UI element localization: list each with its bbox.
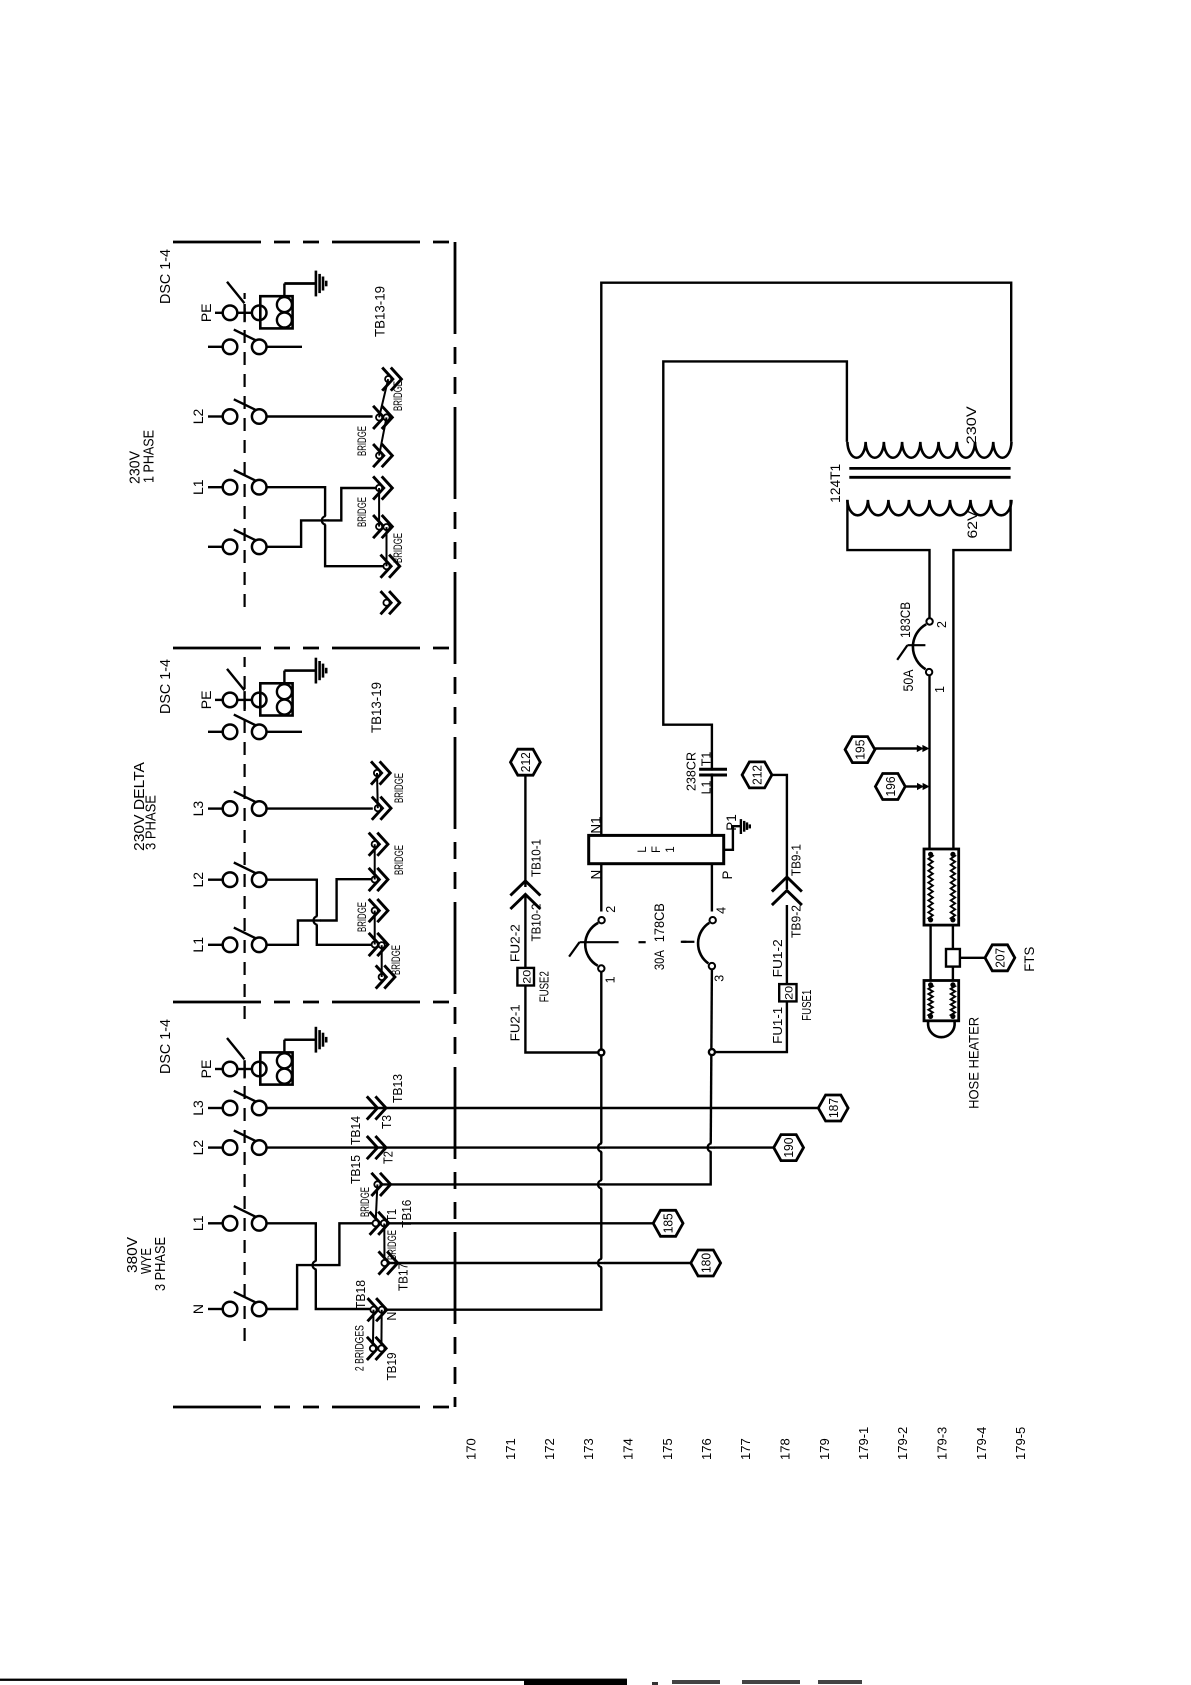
svg-text:2 BRIDGES: 2 BRIDGES xyxy=(353,1325,367,1371)
disconnect DSC spare pole (section 2) xyxy=(208,731,222,733)
heater element R1a xyxy=(928,854,932,920)
terminal chevron TB16 (section 2) xyxy=(369,868,380,891)
svg-text:BRIDGE: BRIDGE xyxy=(355,426,369,456)
svg-text:TB13-19: TB13-19 xyxy=(373,286,388,337)
wire N1 from LF1 box to transformer loop xyxy=(601,283,1011,836)
wire node212 to TB9 chevron xyxy=(772,775,787,889)
node 190 xyxy=(774,1135,804,1161)
wire P side of LF1 to 178CB contact 4 xyxy=(711,863,713,912)
svg-text:TB10-2: TB10-2 xyxy=(530,903,544,941)
svg-text:BRIDGE: BRIDGE xyxy=(391,381,405,411)
terminal chevron TB14 (section 1) xyxy=(373,406,384,429)
svg-text:DSC 1-4: DSC 1-4 xyxy=(157,659,174,714)
wire TB18 to N-bus xyxy=(385,1264,601,1310)
svg-text:1: 1 xyxy=(933,686,947,693)
svg-text:N: N xyxy=(190,1304,206,1314)
interlock dashed line (section 2) xyxy=(244,657,246,1019)
terminal chevron TB14 (section 2) xyxy=(372,797,383,820)
svg-text:FUSE1: FUSE1 xyxy=(800,990,814,1021)
svg-text:1: 1 xyxy=(603,976,617,983)
circuit breaker 178CB pole N (contacts 2-1) xyxy=(598,917,604,923)
bridge link 2 (section 2) xyxy=(374,844,376,879)
wire L2 jog to terminal (section 2) xyxy=(267,880,372,945)
svg-text:3: 3 xyxy=(713,975,727,982)
svg-text:FU2-1: FU2-1 xyxy=(508,1004,522,1041)
svg-text:20: 20 xyxy=(522,970,534,984)
bridge link 4 (section 1) xyxy=(386,527,388,566)
svg-text:DSC 1-4: DSC 1-4 xyxy=(157,1019,174,1074)
svg-text:180: 180 xyxy=(699,1253,713,1273)
wire secondary top end to 62V-A xyxy=(847,500,929,619)
section border (dashed) left of 380V wye section xyxy=(173,1406,455,1409)
bridge link 3 (section 2) xyxy=(374,911,376,945)
terminal chevron TB16 (section 1) xyxy=(373,476,384,499)
terminal chevron TB16 (section 3) xyxy=(370,1212,381,1235)
ground (LF1 P1) xyxy=(724,826,741,850)
bridge link 1 (section 2) xyxy=(376,773,379,808)
ground (section 3 PE) xyxy=(284,1038,316,1040)
svg-text:175: 175 xyxy=(660,1438,675,1460)
transformer 124T1 primary winding 230V xyxy=(847,442,1011,458)
node 195 xyxy=(845,737,875,763)
terminal chevron TB17 (section 2) xyxy=(369,899,380,922)
svg-text:179-1: 179-1 xyxy=(856,1427,871,1460)
svg-text:BRIDGE: BRIDGE xyxy=(355,902,369,932)
svg-text:179-2: 179-2 xyxy=(895,1427,910,1460)
hose heater element housing 2 xyxy=(924,981,959,1021)
svg-text:179-5: 179-5 xyxy=(1013,1427,1028,1460)
wire spare pole jog to TB16 terminal (section 1) xyxy=(267,488,376,547)
svg-text:DSC 1-4: DSC 1-4 xyxy=(157,249,174,304)
svg-text:FUSE2: FUSE2 xyxy=(538,971,552,1002)
svg-text:P: P xyxy=(720,870,735,879)
node 212 (FU1 source) xyxy=(742,762,772,788)
terminal chevron TB19 (section 2) xyxy=(376,965,387,988)
svg-text:TB15: TB15 xyxy=(349,1155,363,1184)
wire L1 jog to TB17 terminal (section 1) xyxy=(267,487,383,566)
circuit breaker 183CB (contacts 2-1) xyxy=(926,618,932,624)
bridge link 4 (section 2) xyxy=(381,945,383,977)
long dashed border under sections xyxy=(454,242,457,1407)
node 185 xyxy=(653,1210,683,1236)
wire crossover hop N-bus over TB17 xyxy=(598,1259,604,1267)
terminal chevron TB18 (section 2) xyxy=(369,933,380,956)
svg-text:TB18: TB18 xyxy=(354,1280,368,1309)
heater element R2a xyxy=(928,985,932,1017)
wire L2 to TB14 terminal (section 1) xyxy=(267,415,373,417)
svg-text:30A: 30A xyxy=(652,950,667,970)
svg-text:62V: 62V xyxy=(965,511,980,539)
terminal chevron TB17 (section 3) xyxy=(379,1251,390,1274)
svg-text:T1: T1 xyxy=(700,752,714,767)
svg-text:176: 176 xyxy=(699,1438,714,1460)
svg-text:TB17: TB17 xyxy=(397,1263,411,1291)
svg-text:2: 2 xyxy=(935,621,949,628)
svg-text:L2: L2 xyxy=(190,872,206,888)
svg-text:TB10-1: TB10-1 xyxy=(530,839,544,877)
svg-text:196: 196 xyxy=(884,776,898,796)
svg-text:3 PHASE: 3 PHASE xyxy=(143,795,160,850)
svg-text:PE: PE xyxy=(198,303,214,322)
node 196 xyxy=(875,774,905,800)
svg-text:BRIDGE: BRIDGE xyxy=(392,773,406,803)
wire N side of LF1 to 178CB contact 2 xyxy=(600,863,602,912)
interlock dashed line (section 3) xyxy=(244,1055,246,1341)
svg-text:FU1-2: FU1-2 xyxy=(771,939,785,977)
wire crossover hop N-bus over TB14 xyxy=(598,1143,604,1151)
junction dot FU1/P-bus xyxy=(709,1049,715,1055)
svg-text:L2: L2 xyxy=(190,1140,206,1156)
node 212 (FU2 source) xyxy=(511,749,541,775)
wire node212 to TB10 chevron xyxy=(524,775,526,887)
section border (dashed) between delta and wye sections xyxy=(173,1001,455,1004)
terminal chevron TB15 (section 2) xyxy=(369,833,380,856)
2 bridges TB18-TB19 (section 3) xyxy=(372,1310,375,1349)
svg-text:F: F xyxy=(651,846,663,853)
terminal chevron TB19 (section 1) xyxy=(381,591,392,614)
disconnect DSC spare pole (section 1) xyxy=(208,346,222,348)
page footer rule (cut off) xyxy=(0,1679,627,1681)
svg-text:212: 212 xyxy=(751,765,765,785)
node 187 xyxy=(818,1095,848,1121)
svg-text:124T1: 124T1 xyxy=(828,464,843,503)
svg-text:HOSE HEATER: HOSE HEATER xyxy=(965,1017,981,1109)
hose heater element housing 1 xyxy=(924,849,959,925)
line filter LF1 xyxy=(589,835,724,863)
node 180 xyxy=(691,1250,721,1276)
svg-text:BRIDGE: BRIDGE xyxy=(392,845,406,875)
wire 178CB-3 to P junction and TB15 xyxy=(711,969,712,1150)
thermal switch FTS xyxy=(946,949,960,967)
svg-text:L1: L1 xyxy=(190,937,206,953)
svg-text:BRIDGE: BRIDGE xyxy=(389,945,403,975)
svg-text:N1: N1 xyxy=(589,816,604,833)
wire TB17 to node 180 xyxy=(388,1262,691,1264)
svg-text:T3: T3 xyxy=(380,1115,394,1129)
wire 183CB-1 to hose heater xyxy=(928,675,930,848)
svg-text:207: 207 xyxy=(994,948,1008,968)
terminal chevron TB19 (section 3) xyxy=(367,1337,378,1360)
svg-text:172: 172 xyxy=(542,1438,557,1460)
wire TB16 through to node 185 xyxy=(387,1222,653,1224)
bridge link 3 (section 1) xyxy=(378,488,380,527)
contact 238CR (L1-T1) xyxy=(705,771,719,774)
page footer bar (cut off) xyxy=(524,1679,627,1685)
bridge TB16-TB17 (section 3) xyxy=(383,1224,385,1263)
terminal chevron TB10 xyxy=(510,881,540,896)
wire crossover hop (section 1) xyxy=(322,516,328,524)
node 207 xyxy=(985,945,1015,971)
heater element R1b xyxy=(951,854,955,920)
wire FU2-1 to N junction xyxy=(525,986,601,1053)
svg-text:PE: PE xyxy=(198,1060,214,1079)
svg-text:50A: 50A xyxy=(901,670,916,692)
svg-text:20: 20 xyxy=(784,986,796,1000)
svg-text:FU2-2: FU2-2 xyxy=(508,924,522,962)
svg-text:1: 1 xyxy=(665,846,677,852)
fuse FUSE1 (20A) xyxy=(779,984,796,1001)
wire 178CB-1 to N junction and TB bus xyxy=(600,972,602,1053)
arrow (node 195 feed) xyxy=(922,745,929,752)
svg-text:L: L xyxy=(637,846,649,853)
svg-text:185: 185 xyxy=(662,1213,676,1233)
svg-text:TB19: TB19 xyxy=(385,1352,399,1380)
svg-text:N: N xyxy=(385,1312,399,1321)
wire FU1-1 to P junction xyxy=(712,1001,787,1052)
svg-text:TB9-1: TB9-1 xyxy=(789,844,803,876)
svg-text:PE: PE xyxy=(198,691,214,710)
svg-text:T2: T2 xyxy=(382,1151,396,1164)
svg-text:190: 190 xyxy=(782,1138,796,1158)
wire node 195 to 62V-A xyxy=(875,747,921,749)
terminal chevron TB13 (section 1) xyxy=(382,368,393,391)
wire FTS to heater 2 xyxy=(952,967,954,981)
disconnect DSC spare pole 2 (section 1) xyxy=(208,546,222,548)
ground (section 2 PE) xyxy=(284,669,316,671)
bridge link 2 (section 1) xyxy=(379,417,386,455)
terminal chevron TB18 (section 1) xyxy=(381,555,392,578)
svg-text:178CB: 178CB xyxy=(652,903,667,942)
svg-text:178: 178 xyxy=(778,1438,793,1460)
svg-text:179-3: 179-3 xyxy=(935,1427,950,1460)
terminal chevron TB13 (section 2) xyxy=(371,761,382,784)
svg-text:FTS: FTS xyxy=(1022,947,1037,972)
svg-text:177: 177 xyxy=(738,1438,753,1460)
svg-text:L3: L3 xyxy=(190,801,206,817)
section border (dashed) right of 230V 1 PHASE section xyxy=(173,241,455,244)
svg-text:171: 171 xyxy=(503,1438,518,1460)
wire L3 to terminal (section 2) xyxy=(267,807,373,809)
svg-text:174: 174 xyxy=(621,1438,636,1460)
transformer core xyxy=(849,467,1010,470)
svg-text:L1: L1 xyxy=(190,1215,206,1231)
terminal chevron TB14 (section 3) xyxy=(367,1136,378,1159)
wire crossover hop P-bus over TB14 xyxy=(708,1143,714,1151)
heater element R2b xyxy=(951,985,955,1017)
svg-text:179-4: 179-4 xyxy=(974,1427,989,1460)
terminal chevron TB17 (section 1) xyxy=(373,515,384,538)
arrow (node 196 feed) xyxy=(923,783,930,790)
wire L1 jog to terminal (section 2) xyxy=(267,879,372,945)
bridge link 1 (section 1) xyxy=(379,379,388,417)
wire crossover hop (section 3) xyxy=(313,1261,319,1269)
wire TB9-2 to FUSE1 xyxy=(786,905,788,984)
section border (dashed) between 1-phase and delta sections xyxy=(173,647,455,650)
wire L1 jog to TB18 (section 3) xyxy=(267,1223,371,1309)
terminal chevron TB9 xyxy=(772,877,802,892)
wire L3 through TB13 to node 187 xyxy=(267,1107,819,1109)
hose heater end cap xyxy=(928,1021,955,1037)
svg-text:L1: L1 xyxy=(700,780,714,794)
svg-text:212: 212 xyxy=(519,752,533,772)
svg-text:L3: L3 xyxy=(190,1100,206,1116)
page footer text fragments (cut off) xyxy=(652,1682,658,1685)
transformer 124T1 secondary winding 62V xyxy=(847,500,1011,515)
dashed tie 178CB xyxy=(639,941,646,943)
wire N-bus from junction to TB18 xyxy=(600,1053,602,1265)
svg-text:3 PHASE: 3 PHASE xyxy=(152,1237,169,1291)
svg-text:183CB: 183CB xyxy=(898,602,913,638)
svg-text:TB13-19: TB13-19 xyxy=(369,682,384,733)
svg-text:195: 195 xyxy=(854,740,868,760)
wire TB15 to P-bus xyxy=(381,1150,711,1184)
junction dot FU2/N-bus xyxy=(598,1050,604,1056)
svg-text:238CR: 238CR xyxy=(683,752,698,791)
circuit breaker 178CB pole P (contacts 4-3) xyxy=(710,917,716,923)
svg-text:L1: L1 xyxy=(190,479,206,495)
bridge TB15-TB16 (section 3) xyxy=(376,1184,378,1223)
svg-text:4: 4 xyxy=(714,907,728,914)
svg-text:170: 170 xyxy=(464,1438,479,1460)
wire crossover hop N-bus over TB15 xyxy=(598,1180,604,1188)
terminal chevron TB15 (section 3) xyxy=(371,1173,382,1196)
svg-text:179: 179 xyxy=(817,1438,832,1460)
terminal chevron TB18 (section 3) xyxy=(368,1298,379,1321)
svg-text:TB14: TB14 xyxy=(349,1116,363,1145)
wire secondary bottom end to 62V-B xyxy=(953,500,1010,849)
svg-text:230V: 230V xyxy=(964,406,979,444)
fuse FUSE2 (20A) xyxy=(517,968,534,986)
terminal chevron TB15 (section 1) xyxy=(373,444,384,467)
svg-text:TB9-2: TB9-2 xyxy=(789,905,803,938)
wire L2 through TB14 to node 190 xyxy=(267,1146,774,1148)
svg-text:1 PHASE: 1 PHASE xyxy=(141,430,158,483)
wire heater mid top xyxy=(929,925,931,980)
svg-text:P1: P1 xyxy=(724,814,739,831)
wire heater mid bottom (to FTS) xyxy=(952,925,954,949)
wire crossover hop (section 2) xyxy=(314,916,320,924)
ground (section 1 PE) xyxy=(284,282,316,284)
svg-text:FU1-1: FU1-1 xyxy=(771,1007,785,1044)
svg-text:TB13: TB13 xyxy=(391,1074,405,1103)
wire FTS to node 207 xyxy=(960,957,985,959)
svg-text:N: N xyxy=(589,870,604,880)
interlock dashed line (section 1) xyxy=(244,293,246,607)
wire P1 from LF1 box via 238CR to transformer loop xyxy=(663,361,847,836)
terminal chevron TB13 (section 3) xyxy=(367,1096,378,1119)
svg-text:BRIDGE: BRIDGE xyxy=(391,533,405,563)
wire TB10-2 to FUSE2 xyxy=(524,895,526,968)
svg-text:L2: L2 xyxy=(190,409,206,425)
wire N jog to TB16 (section 3) xyxy=(267,1223,373,1309)
svg-text:2: 2 xyxy=(604,906,618,913)
svg-text:187: 187 xyxy=(827,1098,841,1118)
svg-text:T1: T1 xyxy=(385,1209,399,1222)
wire node 196 to 62V-A xyxy=(905,785,921,787)
svg-text:BRIDGE: BRIDGE xyxy=(355,497,369,527)
svg-text:173: 173 xyxy=(581,1438,596,1460)
